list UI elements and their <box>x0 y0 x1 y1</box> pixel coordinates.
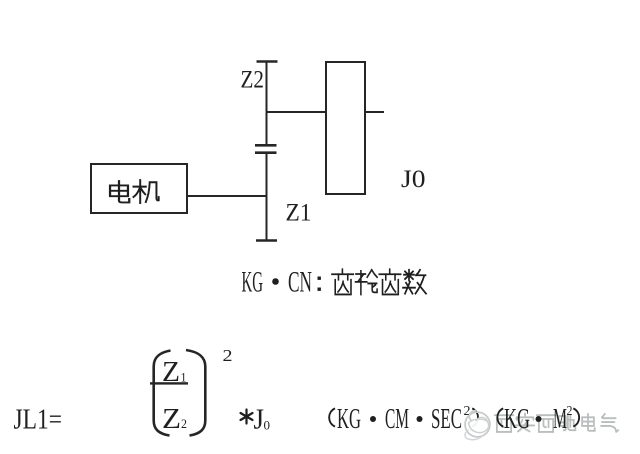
svg-text:KG: KG <box>242 266 264 299</box>
svg-text:2: 2 <box>567 404 573 419</box>
svg-text:KG: KG <box>337 403 361 435</box>
svg-text:Z: Z <box>162 403 181 435</box>
svg-text:J: J <box>254 404 265 436</box>
svg-text:Z2: Z2 <box>241 64 265 93</box>
svg-text:KG: KG <box>504 403 530 435</box>
svg-text:CN: CN <box>288 266 312 299</box>
svg-text:SEC: SEC <box>431 403 462 435</box>
svg-text:Z1: Z1 <box>286 197 312 226</box>
svg-text:2: 2 <box>181 416 187 431</box>
svg-text:J0: J0 <box>401 164 426 193</box>
svg-text:M: M <box>553 403 567 435</box>
svg-text:JL1=: JL1= <box>14 403 63 435</box>
svg-text:2: 2 <box>223 346 233 365</box>
svg-text:CM: CM <box>385 403 409 435</box>
svg-text:0: 0 <box>264 418 271 433</box>
